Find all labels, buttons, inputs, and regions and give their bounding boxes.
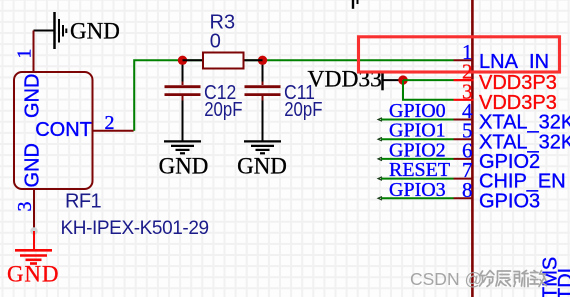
pin 3 line [454,99,474,101]
svg-text:GPIO0: GPIO0 [389,100,446,122]
svg-text:8: 8 [462,178,473,202]
pin 8 line [454,197,474,199]
svg-text:1: 1 [14,49,36,59]
resistor R3 [183,53,263,69]
pin 1 of RF1 [33,31,35,72]
junction node VDD33 [398,75,407,84]
svg-text:GND: GND [70,19,120,44]
svg-text:LNA IN: LNA IN [479,51,549,73]
svg-text:RESET: RESET [389,159,450,181]
svg-text:XTAL_32K_P: XTAL_32K_P [479,112,570,134]
wire net GPIO2 [378,157,453,160]
svg-text:GPIO1: GPIO1 [389,120,446,142]
svg-text:RF1: RF1 [65,191,101,213]
pin 1 line [454,59,474,61]
pin 2 line [454,79,474,81]
svg-text:20pF: 20pF [284,98,322,121]
svg-text:GPIO2: GPIO2 [479,151,540,173]
ground under C11 [237,141,287,178]
svg-text:GND: GND [22,143,44,187]
svg-text:CONT: CONT [35,119,92,141]
wire net RESET [378,177,453,180]
wire VDD33 to pin 2 [403,79,454,81]
svg-text:GND: GND [237,154,287,179]
svg-text:2: 2 [105,112,115,134]
svg-text:20pF: 20pF [204,98,242,121]
svg-text:GPIO2: GPIO2 [389,139,446,161]
svg-text:GND: GND [159,154,209,179]
svg-text:GND: GND [22,74,44,118]
svg-text:VDD3P3: VDD3P3 [479,72,557,94]
pin 2 of RF1 [93,130,134,132]
junction node at C12 [178,56,187,65]
svg-text:3: 3 [14,202,36,212]
svg-text:GND: GND [7,262,59,287]
svg-text:CHIP_EN: CHIP_EN [479,171,566,193]
ground under C12 [159,141,209,178]
svg-text:TDI: TDI [555,268,570,297]
pin 4 line [454,119,474,121]
wire CONT to LNA_IN [134,60,453,130]
pin 6 line [454,158,474,160]
svg-text:VDD33: VDD33 [308,66,382,92]
capacitor C12 [165,65,201,141]
junction node at C11 [258,56,267,65]
svg-text:0: 0 [210,30,221,52]
selection rectangle around pin 1 [359,37,560,72]
ground symbol stub (cut at top) [353,0,358,9]
svg-text:KH-IPEX-K501-29: KH-IPEX-K501-29 [61,218,209,239]
wire net GPIO3 [378,197,453,200]
wire VDD33 to pin 3 [403,80,454,100]
capacitor C11 [245,65,281,141]
power port VDD33 [308,66,404,92]
wire pin1 RF1 to ground [34,30,55,32]
pin 3 of RF1 [33,190,35,232]
ground GND bottom-left (red) [7,250,59,286]
connector RF1 body [14,72,93,189]
svg-text:GPIO3: GPIO3 [479,190,540,212]
wire net GPIO0 [378,118,453,121]
pin 5 line [454,138,474,140]
node pin3 (gray) [30,227,37,234]
component U1 edge [471,0,474,297]
svg-text:XTAL_32K_N: XTAL_32K_N [479,131,570,153]
wire pin3 to ground [33,231,35,249]
svg-text:CSDN @: CSDN @ [410,269,482,289]
wire net GPIO1 [378,138,453,141]
svg-text:GPIO3: GPIO3 [389,179,446,201]
pin 7 line [454,178,474,180]
ground GND top-left [55,12,120,49]
